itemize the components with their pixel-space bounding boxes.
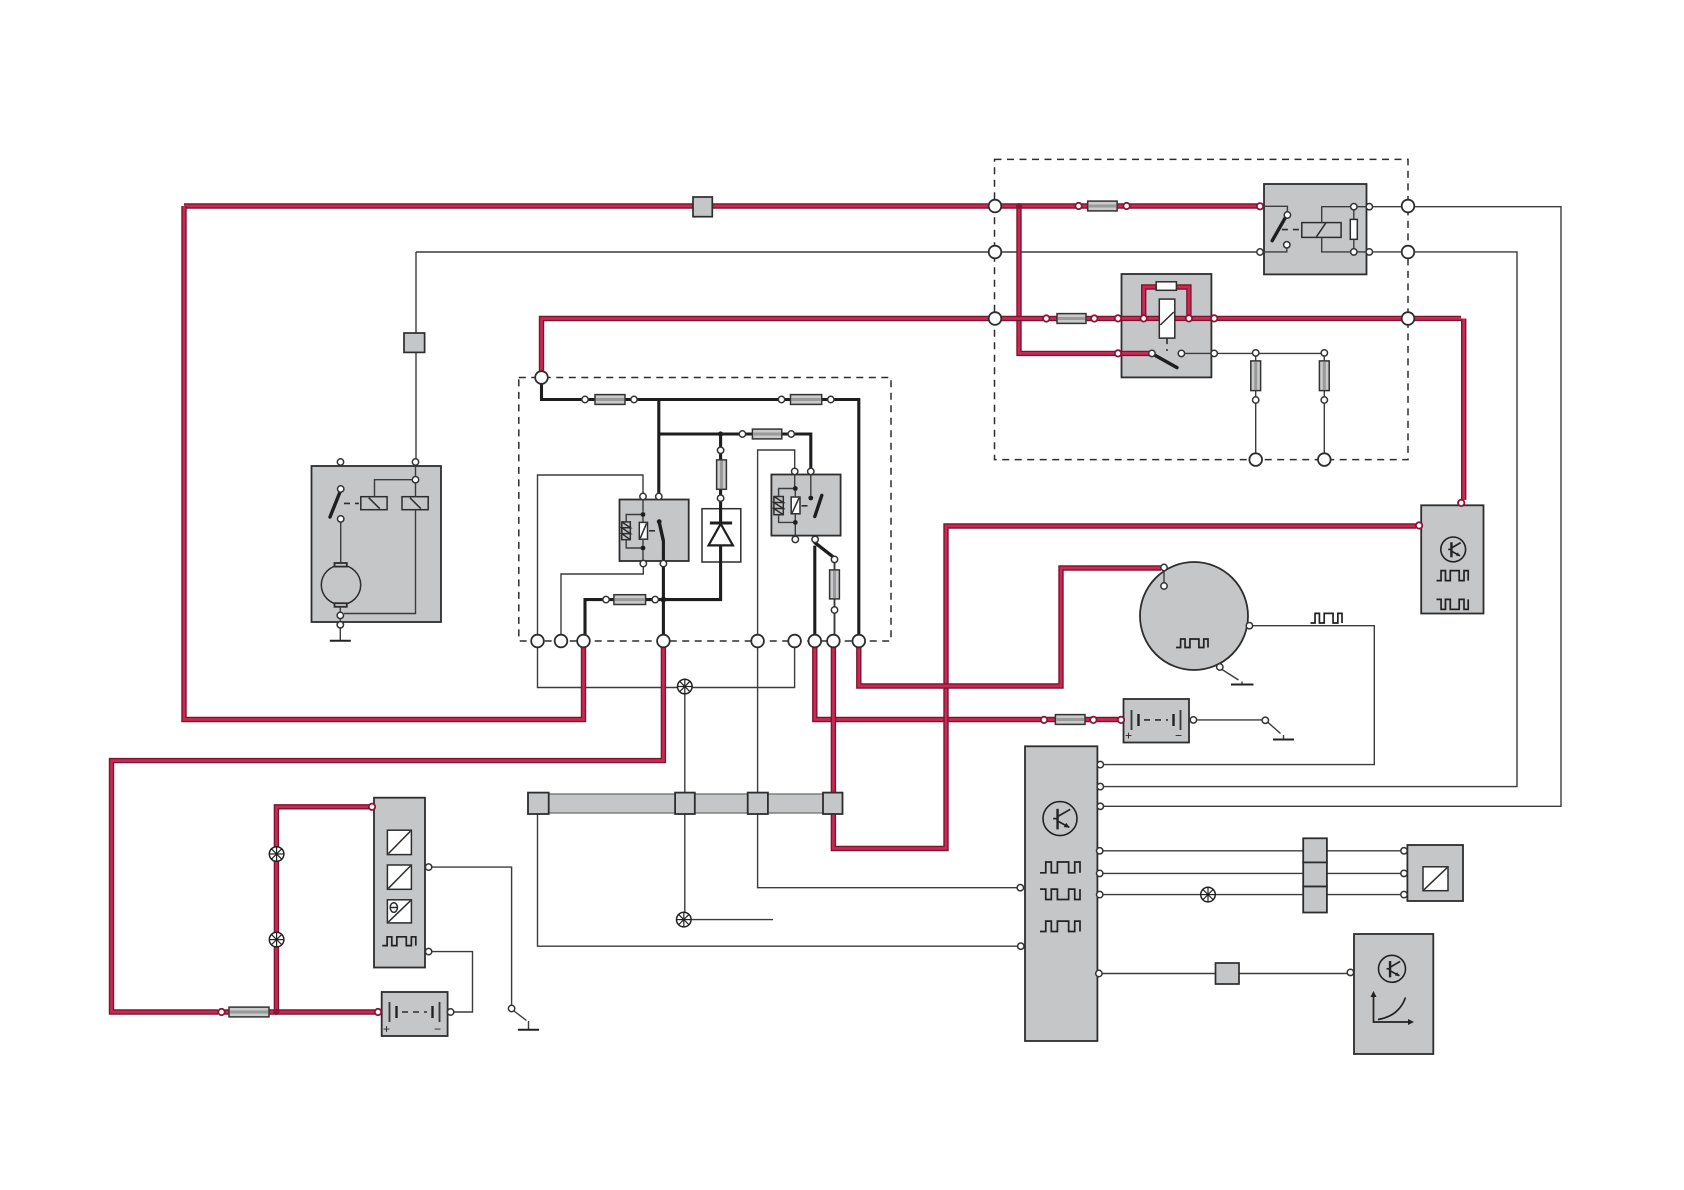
motor M armature <box>321 565 360 604</box>
wire fuse drop left <box>1255 356 1257 453</box>
pin ignition loop r <box>1186 315 1192 321</box>
relay K1 switch arm <box>1272 217 1285 241</box>
fuse F12 <box>1319 361 1329 391</box>
wire diode branch <box>719 434 722 523</box>
ground G3 kickdown <box>1273 739 1294 741</box>
pin K1 node r2 <box>1351 249 1357 255</box>
diode D1 <box>709 523 733 545</box>
relay K1 lower contact wire <box>1264 248 1287 252</box>
junction lamp branch <box>273 1009 279 1015</box>
pickup signal waveform <box>1311 613 1342 623</box>
instrument cluster box <box>374 798 425 968</box>
wire ECU to gauge line3 <box>1097 894 1404 896</box>
wire warning lamp branch <box>276 807 369 1012</box>
starter switch arm <box>330 491 340 517</box>
pin fuse F6 right <box>1091 315 1097 321</box>
pin main relay 86 <box>640 493 646 499</box>
wire coil-feed loop node A to relay coil <box>538 475 644 635</box>
pin motor case <box>337 622 343 628</box>
pin power stage top <box>1458 500 1464 506</box>
wire node A bus to ECU <box>538 813 1024 946</box>
control unit ECU box <box>1025 746 1097 1041</box>
pin K1 30 <box>1366 204 1372 210</box>
pin distributor out <box>1246 623 1252 629</box>
wire ignition switch bypass loop <box>1144 287 1189 318</box>
warning lamp lower <box>677 912 692 927</box>
wire ignition switch internal feed <box>1122 351 1150 356</box>
pin ECU right3 <box>1097 803 1103 809</box>
ground G4 distributor <box>1231 684 1254 686</box>
pin fuse F11 out <box>1253 397 1259 403</box>
pin fuse F1 left <box>582 396 588 402</box>
pin fuse F5 right <box>1123 203 1129 209</box>
node G <box>809 635 822 648</box>
pump relay switch arm <box>815 495 822 516</box>
speed module graph axes <box>1371 991 1415 1025</box>
pin ECU right2 <box>1097 783 1103 789</box>
pin pump relay 30 <box>808 468 814 474</box>
connector splice on battery feed <box>693 197 712 217</box>
bus terminal block 3 <box>748 793 768 814</box>
pin distributor gnd <box>1217 664 1223 670</box>
pin ignition sw pivot <box>1149 350 1155 356</box>
pin pump relay 86 <box>792 468 798 474</box>
node C <box>577 635 590 648</box>
pin fuse F2 right <box>828 396 834 402</box>
pump relay inductor <box>774 497 783 515</box>
wire relay K1 output 85 to right <box>1100 252 1517 787</box>
junction diode feed <box>718 431 723 436</box>
wire pump relay coil links <box>779 475 796 536</box>
pin battery B2 minus <box>1190 717 1196 723</box>
gauge connector block bottom <box>1303 887 1327 913</box>
fuse F13 ignition bypass <box>1156 282 1176 291</box>
pin K1 upper contact <box>1284 212 1290 218</box>
pin ECU right4 <box>1097 848 1103 854</box>
solenoid coil L1 <box>361 497 387 510</box>
power stage module box <box>1421 505 1483 613</box>
wire node G switch feed <box>813 546 816 635</box>
pin distributor cap <box>1161 564 1167 570</box>
pin K1 85 <box>1366 249 1372 255</box>
pin ignition sw out <box>1211 350 1217 356</box>
wire pump relay 87 diagonal to fuse <box>815 543 833 557</box>
pin acc branch left <box>1253 350 1259 356</box>
wire main relay 85 to node B <box>561 567 643 635</box>
speed signal module box <box>1354 934 1433 1054</box>
pin ignition loop l <box>1141 315 1147 321</box>
fuse F8 <box>229 1007 269 1017</box>
node fuse out right <box>1318 453 1331 466</box>
node F <box>788 635 801 648</box>
gauge line lamp <box>1201 887 1216 902</box>
wire ECU pin1 to distributor <box>1097 626 1374 765</box>
pin speed module in <box>1347 969 1353 975</box>
svg-text:+: + <box>383 1022 390 1036</box>
fuse F1 <box>595 395 625 405</box>
node H <box>827 635 840 648</box>
ground G2 test switch <box>518 1029 539 1031</box>
wire main relay coil links <box>626 500 643 561</box>
fuse F2 <box>791 395 822 405</box>
wire fuse drop right <box>1323 356 1325 453</box>
wire coil supply row y318 <box>542 319 1116 371</box>
pin K1 node r1 <box>1351 204 1357 210</box>
main relay dashed actuator <box>649 530 655 532</box>
main relay box <box>620 500 689 562</box>
wire x416 down to motor unit <box>415 252 417 459</box>
battery B1 box <box>382 992 448 1036</box>
pump relay coil junction dots <box>793 486 798 491</box>
fuse F9 <box>717 460 727 489</box>
pin diode top <box>717 447 723 453</box>
connector splice on ignition line <box>404 333 425 352</box>
pin ECU left2 <box>1018 943 1024 949</box>
node 15 left edge <box>989 200 1002 213</box>
wire coil L2 to motor return <box>344 510 416 614</box>
pin fuse F5 left <box>1075 203 1081 209</box>
bus terminal block 1 <box>528 793 549 814</box>
node B <box>555 635 568 648</box>
ignition switch arm <box>1155 355 1178 368</box>
pin motor bottom <box>337 612 343 618</box>
pin main relay 87 <box>660 560 666 566</box>
svg-text:−: − <box>434 1022 441 1036</box>
pin fuse F3 left <box>739 431 745 437</box>
wire battery positive feed top <box>184 203 1257 208</box>
wire node G to battery B2 <box>815 647 1118 719</box>
wire ECU to gauge line1 <box>1097 850 1404 852</box>
pin power stage left <box>1416 522 1422 528</box>
pump relay contact dot <box>808 496 813 501</box>
wire bus to warning lamp lower <box>684 813 686 912</box>
pin instrument out1 <box>425 864 431 870</box>
node fuse out left <box>1249 453 1262 466</box>
node supply entry <box>535 371 548 384</box>
pin K1 in <box>1257 203 1263 209</box>
fuse F5 <box>1088 201 1117 211</box>
wire instrument output to switch <box>432 867 512 1005</box>
wire lamp stub <box>691 919 773 921</box>
wire fuse F10 tails <box>834 562 836 634</box>
bus terminal block 4 <box>823 793 843 814</box>
wire instrument wave out to battery B1 <box>432 952 473 1012</box>
power stage waveform 2 <box>1437 599 1469 609</box>
pin test switch <box>508 1005 514 1011</box>
wire ignition coil row inside <box>1122 318 1464 500</box>
relay K1 dashed actuator <box>1282 229 1300 231</box>
main relay coil core <box>639 522 647 539</box>
motor brush bottom <box>335 603 347 607</box>
junction fuse row crossing <box>661 597 667 603</box>
pin fuse F4 right <box>652 596 658 602</box>
wire motor unit right feed <box>375 462 416 497</box>
overdrive relay box <box>1264 184 1367 274</box>
pin pump relay 85 <box>792 536 798 542</box>
pin ignition sw in <box>1115 350 1121 356</box>
distributor waveform <box>1176 639 1208 648</box>
fuse F7 <box>1055 715 1085 725</box>
warning lamp upper <box>678 679 693 694</box>
instrument gauge cell 1 <box>387 830 411 854</box>
pin ECU right7 <box>1096 970 1102 976</box>
pin ignition out right <box>1211 315 1217 321</box>
wire node E bus to ECU <box>758 647 1023 887</box>
wire ECU to gauge line2 <box>1097 872 1404 874</box>
wire motor to case terminal <box>339 607 341 622</box>
diode box <box>702 509 741 562</box>
indicator lamp 2 <box>269 932 284 947</box>
pump relay box <box>771 475 840 536</box>
pin instrument in <box>369 804 375 810</box>
pin gauge in3 <box>1401 891 1407 897</box>
pin diode fuse bottom <box>717 495 723 501</box>
relay box dashed boundary <box>995 159 1409 459</box>
starter switch dashed link <box>344 502 359 504</box>
connector splice on speed signal line <box>1216 963 1240 984</box>
test switch S1 <box>514 1011 529 1030</box>
node 30 right edge <box>1402 200 1415 213</box>
pin fuse F3 right <box>788 431 794 437</box>
instrument theta symbol <box>390 903 399 913</box>
kickdown switch S2 <box>1268 722 1284 739</box>
main relay inductor <box>622 522 631 540</box>
motor brush top <box>335 563 347 567</box>
ECU waveform 2 <box>1040 889 1080 899</box>
relay K1 resistor <box>1350 219 1357 239</box>
pin pump fuse bottom <box>831 607 837 613</box>
pump relay coil core <box>791 497 800 514</box>
bus terminal block 2 <box>675 793 695 814</box>
indicator lamp 1 <box>269 847 284 862</box>
pump relay dashed actuator <box>802 505 808 507</box>
fuse F6 <box>1057 314 1086 324</box>
pin starter switch bottom <box>338 516 344 522</box>
ignition coil core <box>1159 299 1175 338</box>
pin fuse F7 right <box>1090 717 1096 723</box>
speed module transistor symbol <box>1379 955 1406 982</box>
wire node E to pump relay coil <box>758 450 795 647</box>
pin K1 85 out <box>1257 249 1263 255</box>
pin K1 lower contact <box>1284 242 1290 248</box>
pin pump relay 87 <box>812 536 818 542</box>
pin battery B1 plus <box>375 1009 381 1015</box>
pin ECU left1 <box>1017 885 1023 891</box>
solenoid coil L2 <box>402 497 428 510</box>
instrument gauge cell 2 <box>387 865 411 889</box>
pin main relay 30 <box>656 493 662 499</box>
pin distributor rotor <box>1161 583 1167 589</box>
ground G1 motor <box>330 628 351 641</box>
node A <box>531 635 544 648</box>
pin ECU right6 <box>1097 891 1103 897</box>
pin battery B1 minus <box>447 1009 453 1015</box>
wire node I to distributor <box>859 568 1161 686</box>
fuse F3 <box>752 429 781 439</box>
pin ignition sw contact <box>1178 350 1184 356</box>
wire relay K1 output 30 to right <box>1100 207 1561 807</box>
main relay coil junction dots <box>641 512 646 517</box>
node I <box>853 635 866 648</box>
node coil right edge <box>1402 312 1415 325</box>
wire battery B2 to kickdown switch <box>1197 719 1262 721</box>
fuse F11 <box>1251 361 1261 391</box>
gauge connector block top <box>1303 838 1327 862</box>
ignition dashed actuator <box>1166 338 1168 351</box>
pin fuse F6 left <box>1043 315 1049 321</box>
wire node A to node F link <box>538 647 795 687</box>
main relay contact dot <box>657 519 662 524</box>
pin fuse F8 left <box>218 1009 224 1015</box>
node E <box>751 635 764 648</box>
junction battery feed split <box>1016 203 1022 209</box>
relay K1 input wire <box>1264 206 1287 211</box>
pin instrument out2 <box>425 948 431 954</box>
svg-text:+: + <box>1125 729 1132 743</box>
battery B2 box <box>1124 699 1190 743</box>
pin fuse F4 left <box>603 596 609 602</box>
pin ignition in left <box>1115 315 1121 321</box>
node 85 right edge <box>1402 246 1415 259</box>
instrument waveform <box>382 937 416 946</box>
gauge connector block middle <box>1303 862 1327 886</box>
wire diode cathode to fuse row <box>585 545 721 635</box>
ignition switch box <box>1122 274 1212 377</box>
pin fuse F7 left <box>1041 717 1047 723</box>
wire left drop to node C <box>184 206 584 720</box>
main relay switch arm <box>660 524 664 541</box>
wire ignition line y252 <box>416 251 1260 253</box>
wire distributor rotor gap <box>1163 571 1165 583</box>
fuse F4 <box>614 595 646 605</box>
gauge module cell <box>1423 867 1448 891</box>
wire branch row y434 <box>659 400 811 494</box>
pin motor t2 <box>412 459 418 465</box>
pin motor t1 <box>337 459 343 465</box>
pin acc branch right <box>1321 350 1327 356</box>
node D <box>657 635 670 648</box>
distributor ground arm <box>1222 670 1242 685</box>
battery B1 plates <box>383 1002 441 1036</box>
wire bus to warning lamp upper <box>684 694 686 794</box>
pin gauge in1 <box>1401 848 1407 854</box>
wire node D to battery loop <box>112 647 664 1012</box>
ECU transistor symbol <box>1043 802 1077 836</box>
power stage transistor symbol <box>1441 537 1466 562</box>
gauge module box <box>1407 845 1463 901</box>
wire pump relay 30 inside <box>810 472 812 496</box>
wire ignition branch x1019 <box>1019 206 1118 353</box>
pin pump fuse top <box>831 556 837 562</box>
pin battery B2 plus <box>1118 717 1124 723</box>
instrument temp gauge cell <box>387 900 411 923</box>
wire central supply row y400 <box>542 385 859 635</box>
ECU waveform 3 <box>1040 921 1080 931</box>
pin gauge in2 <box>1401 870 1407 876</box>
ground bus bar <box>528 794 843 813</box>
pin kickdown switch <box>1262 717 1268 723</box>
pin fuse F2 left <box>778 396 784 402</box>
svg-text:−: − <box>1175 729 1182 743</box>
central unit dashed boundary <box>519 378 891 642</box>
node 85 left edge <box>989 246 1002 259</box>
starter motor assembly box <box>312 466 442 622</box>
pin motor split <box>412 477 418 483</box>
ECU waveform 1 <box>1040 862 1080 873</box>
wire main relay 87 down to node D <box>662 541 665 635</box>
pin ECU right5 <box>1097 870 1103 876</box>
wire switch to motor <box>340 522 342 563</box>
power stage waveform 1 <box>1437 571 1469 581</box>
wire ECU to speed module <box>1097 973 1347 975</box>
pin starter switch top <box>338 486 344 492</box>
pin main relay 85 <box>640 560 646 566</box>
wire node H to power stage <box>833 526 1416 849</box>
relay K1 coil core <box>1302 223 1341 238</box>
pin fuse F12 out <box>1321 397 1327 403</box>
pin fuse F1 right <box>631 396 637 402</box>
wire ignition switch accessory out <box>1185 352 1322 354</box>
relay K1 coil loop wires <box>1322 207 1367 252</box>
node coil left edge <box>989 312 1002 325</box>
distributor body <box>1140 562 1248 670</box>
pin ECU right1 <box>1097 761 1103 767</box>
battery B2 plates <box>1125 710 1182 743</box>
fuse F10 <box>830 570 840 599</box>
